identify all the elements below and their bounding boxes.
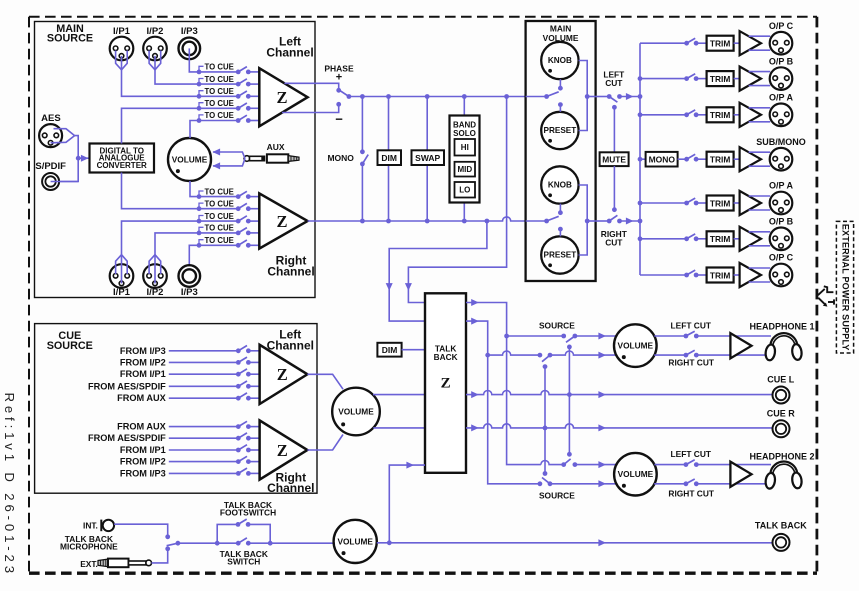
TALK BACK SWITCH xyxy=(217,538,334,567)
wire converter to row 4 xyxy=(122,108,200,143)
svg-text:TRIM: TRIM xyxy=(710,155,730,165)
MAIN VOLUME box xyxy=(526,21,596,281)
main volume PRESET 1 xyxy=(541,112,578,149)
output amp 5 xyxy=(734,191,761,215)
output mute switch 2 xyxy=(684,74,706,81)
main volume PRESET 2 xyxy=(541,236,578,273)
CUE L output jack xyxy=(767,374,795,403)
output mute switch 3 xyxy=(684,110,706,117)
svg-text:SOURCE: SOURCE xyxy=(539,491,575,501)
output amp 4 xyxy=(734,147,761,171)
cue source row FROM I/P1 L xyxy=(120,369,260,379)
wire cue right output row xyxy=(466,424,773,432)
svg-text:I/P3: I/P3 xyxy=(181,287,198,298)
svg-text:TALK BACK: TALK BACK xyxy=(755,521,807,531)
wire bus to output switch 5 xyxy=(640,202,687,204)
wire amp to XLR 7 xyxy=(749,268,771,282)
output mute switch 1 xyxy=(684,38,706,45)
svg-text:I/P1: I/P1 xyxy=(113,287,131,298)
svg-text:TO CUE: TO CUE xyxy=(205,63,234,72)
svg-text:FROM I/P2: FROM I/P2 xyxy=(120,357,166,367)
svg-text:SWITCH: SWITCH xyxy=(227,557,260,567)
wire cue volume to talkback right xyxy=(373,427,425,429)
svg-text:Z: Z xyxy=(276,212,287,231)
knob/preset selector switch 2 xyxy=(526,204,563,237)
CUE SOURCE box xyxy=(35,324,317,494)
HP2 right source select switch xyxy=(538,471,553,486)
svg-text:TRIM: TRIM xyxy=(710,110,730,120)
cue source row FROM AUX R xyxy=(117,421,259,431)
cue source row FROM AES/SPDIF R xyxy=(88,433,260,443)
wire bus to output switch 2 xyxy=(640,78,687,80)
svg-text:TRIM: TRIM xyxy=(710,234,730,244)
EXT jack plug icon xyxy=(80,559,151,570)
svg-text:Z: Z xyxy=(441,376,451,392)
wire amp to XLR 3 xyxy=(749,108,771,122)
svg-text:DIM: DIM xyxy=(381,153,397,163)
wire amp to XLR 1 xyxy=(749,36,771,50)
wire amp to XLR 2 xyxy=(749,72,771,86)
svg-text:I/P3: I/P3 xyxy=(181,26,198,37)
output amp 3 xyxy=(734,103,761,127)
XLR input I/P2 (top) xyxy=(143,26,167,70)
svg-text:O/P A: O/P A xyxy=(769,181,794,191)
svg-text:VOLUME: VOLUME xyxy=(172,155,208,165)
TRIM box 2 xyxy=(707,71,734,86)
TRIM box 3 xyxy=(707,107,734,122)
wire cue volume to talkback left xyxy=(373,394,425,396)
svg-text:TO CUE: TO CUE xyxy=(205,111,234,120)
XLR output SUB/MONO (row 4) xyxy=(756,137,806,171)
output mute switch 5 xyxy=(684,198,706,205)
cue source row FROM I/P2 R xyxy=(120,456,260,466)
jack input S/PDIF xyxy=(35,161,78,190)
MONO sum box xyxy=(640,152,687,167)
svg-text:MONO: MONO xyxy=(649,154,676,164)
HP1 left cut switch xyxy=(654,321,771,339)
TALK BACK MICROPHONE label xyxy=(60,534,118,552)
TO CUE tap and switch row 7 xyxy=(197,199,260,211)
svg-text:BACK: BACK xyxy=(434,352,458,362)
svg-text:TO CUE: TO CUE xyxy=(205,224,234,233)
svg-text:CUE R: CUE R xyxy=(767,409,796,419)
cue source row FROM I/P3 R xyxy=(120,468,260,478)
DIGITAL TO ANALOGUE CONVERTER box xyxy=(90,144,155,173)
svg-text:Channel: Channel xyxy=(267,481,314,495)
wire HP2 left to volume xyxy=(575,461,617,468)
cue VOLUME knob xyxy=(332,388,380,436)
SWAP box xyxy=(412,97,445,222)
svg-text:INT.: INT. xyxy=(83,520,98,530)
svg-text:S/PDIF: S/PDIF xyxy=(35,161,66,172)
HEADPHONE 2 icon xyxy=(749,451,814,489)
svg-text:MICROPHONE: MICROPHONE xyxy=(60,542,118,552)
svg-text:SOLO: SOLO xyxy=(453,129,476,138)
wire volume to row 5 xyxy=(190,121,199,139)
XLR output O/P A (row 5) xyxy=(769,181,794,215)
INT microphone icon xyxy=(83,520,114,532)
svg-text:O/P C: O/P C xyxy=(769,253,794,263)
svg-text:−: − xyxy=(335,111,343,126)
svg-text:AES: AES xyxy=(41,113,61,124)
TO CUE tap and switch row 4 xyxy=(197,99,260,111)
wire talkback out monitor right xyxy=(466,318,540,484)
svg-text:SOURCE: SOURCE xyxy=(47,340,93,352)
svg-text:SOURCE: SOURCE xyxy=(47,32,93,44)
TALK BACK output jack xyxy=(755,521,807,551)
svg-text:FROM AUX: FROM AUX xyxy=(117,422,167,432)
HP2 SOURCE label xyxy=(539,491,575,501)
wire talkback output row xyxy=(389,539,772,546)
left monitor bus wire xyxy=(349,94,526,99)
wire bus to output switch 6 xyxy=(640,238,687,240)
svg-text:FROM AES/SPDIF: FROM AES/SPDIF xyxy=(88,381,166,391)
MAIN SOURCE box xyxy=(35,22,316,298)
svg-text:MID: MID xyxy=(457,165,472,174)
output bus wire xyxy=(638,43,643,275)
wire converter to row 7 xyxy=(122,173,200,209)
cue DIM box xyxy=(377,343,425,357)
output mute switch 4 xyxy=(684,154,706,161)
Ref:1v1 D 26-01-23 revision text xyxy=(2,393,17,577)
output mute switch 6 xyxy=(684,234,706,241)
wire HP2 right to volume xyxy=(550,480,617,487)
wire talkback volume to talkback mixer xyxy=(377,462,425,546)
main source VOLUME knob (aux) xyxy=(168,138,211,181)
svg-text:Channel: Channel xyxy=(267,265,314,279)
XLR input I/P1 (top) xyxy=(110,26,134,70)
XLR input I/P2 (bottom) xyxy=(143,255,167,298)
wire HP1 left to volume xyxy=(575,333,617,340)
svg-text:I/P1: I/P1 xyxy=(113,26,131,37)
wire bus to output switch 1 xyxy=(640,42,687,44)
svg-text:FOOTSWITCH: FOOTSWITCH xyxy=(220,507,276,517)
svg-text:TRIM: TRIM xyxy=(710,198,730,208)
svg-text:VOLUME: VOLUME xyxy=(337,536,373,546)
svg-text:HI: HI xyxy=(461,143,469,152)
HP2 VOLUME knob xyxy=(614,453,657,496)
svg-text:FROM AUX: FROM AUX xyxy=(117,393,167,403)
svg-text:TO CUE: TO CUE xyxy=(205,187,234,196)
wire cue amps to cue volume xyxy=(307,374,343,450)
XLR output O/P C (row 1) xyxy=(769,21,794,55)
HP2 amp xyxy=(730,462,751,487)
cue source row FROM I/P1 R xyxy=(120,445,260,455)
main volume KNOB 2 xyxy=(541,166,578,203)
svg-text:TO CUE: TO CUE xyxy=(205,75,234,84)
wire selector to footswitch junction xyxy=(178,541,220,546)
svg-text:FROM AES/SPDIF: FROM AES/SPDIF xyxy=(88,433,166,443)
wire cue-R feed vertical xyxy=(544,367,546,474)
svg-text:TRIM: TRIM xyxy=(710,270,730,280)
wire I/P1 bottom to row 8 xyxy=(122,221,200,255)
TO CUE tap and switch row 5 xyxy=(197,111,260,123)
svg-text:Z: Z xyxy=(277,441,288,460)
svg-text:I/P2: I/P2 xyxy=(147,287,164,298)
right monitor bus wire xyxy=(308,217,526,224)
wire bus to output switch 7 xyxy=(640,274,687,276)
TRIM box 7 xyxy=(707,268,734,283)
main volume KNOB 1 xyxy=(541,42,578,79)
svg-text:FROM I/P1: FROM I/P1 xyxy=(120,445,166,455)
wire I/P3 bottom to row 10 xyxy=(189,245,199,276)
svg-text:Channel: Channel xyxy=(266,45,313,59)
svg-text:FROM I/P2: FROM I/P2 xyxy=(120,457,166,467)
svg-text:LEFT CUT: LEFT CUT xyxy=(671,449,712,459)
svg-text:FROM I/P1: FROM I/P1 xyxy=(120,369,166,379)
svg-text:PRESET: PRESET xyxy=(544,126,577,135)
TRIM box 5 xyxy=(707,196,734,211)
LEFT CUT switch xyxy=(596,70,640,153)
BAND SOLO box xyxy=(450,97,480,222)
output amp 1 xyxy=(734,31,761,55)
output mute switch 7 xyxy=(684,270,706,277)
svg-text:EXT.: EXT. xyxy=(80,559,98,569)
output amp 6 xyxy=(734,227,761,251)
wire cue-L feed vertical xyxy=(568,347,570,454)
svg-text:VOLUME: VOLUME xyxy=(338,407,374,417)
wire amp to XLR 4 xyxy=(749,152,771,166)
TO CUE tap and switch row 6 xyxy=(197,187,260,199)
external power supply connector symbol xyxy=(818,286,834,306)
svg-text:CUE L: CUE L xyxy=(767,374,795,384)
output amp 2 xyxy=(734,67,761,91)
svg-text:HEADPHONE 1: HEADPHONE 1 xyxy=(749,322,814,332)
wire INT mic to selector xyxy=(114,524,168,537)
knob/preset output join 1 xyxy=(579,61,596,131)
TRIM box 1 xyxy=(707,36,734,51)
svg-text:VOLUME: VOLUME xyxy=(618,341,654,351)
svg-text:SOURCE: SOURCE xyxy=(539,320,575,330)
svg-text:PRESET: PRESET xyxy=(544,251,577,260)
cue source row FROM AUX L xyxy=(117,393,259,403)
svg-text:TO CUE: TO CUE xyxy=(205,99,234,108)
left channel amp U1 xyxy=(259,34,313,126)
EXTERNAL POWER SUPPLY dashed box xyxy=(836,221,853,353)
HP2 left cut switch xyxy=(654,449,771,467)
XLR output O/P C (row 7) xyxy=(769,253,794,287)
RIGHT CUT switch xyxy=(596,166,640,247)
wire AES/SPDIF to converter xyxy=(51,136,90,182)
CUE R output jack xyxy=(767,409,796,438)
svg-text:LO: LO xyxy=(459,186,470,195)
TO CUE tap and switch row 2 xyxy=(197,75,260,87)
svg-text:TO CUE: TO CUE xyxy=(205,236,234,245)
jack input I/P3 (top) xyxy=(179,26,201,59)
svg-text:KNOB: KNOB xyxy=(548,56,572,65)
TO CUE tap and switch row 8 xyxy=(197,212,260,224)
svg-text:O/P A: O/P A xyxy=(769,93,794,103)
TO CUE tap and switch row 9 xyxy=(197,224,260,236)
HP1 right cut switch xyxy=(654,350,767,367)
svg-text:CUT: CUT xyxy=(605,78,623,88)
svg-text:VOLUME: VOLUME xyxy=(618,469,654,479)
svg-text:CUT: CUT xyxy=(605,237,623,247)
svg-text:LEFT CUT: LEFT CUT xyxy=(671,321,712,331)
wire monitor right to talkback xyxy=(386,221,487,321)
HP1 left source select switch xyxy=(507,334,578,350)
wire HP2 left row hop xyxy=(541,461,564,465)
cue right amp U4 xyxy=(260,420,315,495)
svg-text:FROM I/P3: FROM I/P3 xyxy=(120,346,166,356)
svg-text:KNOB: KNOB xyxy=(548,181,572,190)
cue source row FROM I/P2 L xyxy=(120,357,260,367)
XLR output O/P A (row 3) xyxy=(769,93,794,127)
svg-text:RIGHT CUT: RIGHT CUT xyxy=(668,357,714,367)
svg-text:DIM: DIM xyxy=(382,345,398,355)
wire amp to XLR 5 xyxy=(749,196,771,210)
HEADPHONE 1 icon xyxy=(749,322,814,361)
MUTE box xyxy=(600,152,629,166)
svg-text:CONVERTER: CONVERTER xyxy=(97,161,147,170)
cue source row FROM I/P3 L xyxy=(120,346,260,356)
wire I/P3 to row 1 xyxy=(189,48,199,72)
TO CUE tap and switch row 1 xyxy=(197,63,260,75)
HP1 right source select switch xyxy=(488,351,553,369)
wire volume to row 6 xyxy=(190,181,199,197)
TO CUE tap and switch row 3 xyxy=(197,87,260,99)
wire I/P1 to row 3 xyxy=(122,70,200,97)
TALK BACK FOOTSWITCH branch xyxy=(217,500,276,546)
output amp 7 xyxy=(734,263,761,287)
wire talkback out monitor left xyxy=(466,299,541,465)
svg-text:SUB/MONO: SUB/MONO xyxy=(756,137,806,147)
svg-text:MONO: MONO xyxy=(327,153,354,163)
svg-text:MUTE: MUTE xyxy=(602,154,626,164)
DIM box xyxy=(378,97,402,222)
wire AUX plug to volume xyxy=(213,149,246,170)
wire EXT plug to selector xyxy=(152,549,168,563)
talkback VOLUME knob xyxy=(334,520,377,563)
HP1 amp xyxy=(730,333,751,358)
svg-text:Z: Z xyxy=(276,88,287,107)
HP2 right cut switch xyxy=(654,479,767,498)
svg-text:TRIM: TRIM xyxy=(710,39,730,49)
svg-text:AUX: AUX xyxy=(267,142,285,152)
wire monitor left to talkback xyxy=(405,97,507,303)
svg-text:EXTERNAL POWER SUPPLY: EXTERNAL POWER SUPPLY xyxy=(841,224,851,351)
TRIM box 6 xyxy=(707,231,734,246)
knob/preset output join 2 xyxy=(579,185,596,255)
wire I/P2 bottom to row 9 xyxy=(155,233,199,255)
MONO switch xyxy=(327,97,368,222)
XLR input I/P1 (bottom) xyxy=(110,255,134,298)
svg-text:O/P C: O/P C xyxy=(769,21,794,31)
svg-text:+: + xyxy=(336,72,342,84)
wire bus to output switch 3 xyxy=(640,114,687,116)
svg-text:Ref:1v1 D 26-01-23: Ref:1v1 D 26-01-23 xyxy=(2,393,17,577)
svg-text:Z: Z xyxy=(277,365,288,384)
HP1 SOURCE label xyxy=(539,320,575,330)
phase invert switch xyxy=(282,64,354,127)
svg-text:Channel: Channel xyxy=(267,338,314,352)
right channel amp U2 xyxy=(259,193,314,278)
svg-text:TO CUE: TO CUE xyxy=(205,199,234,208)
wire HP1 right to volume xyxy=(550,351,617,359)
svg-text:TO CUE: TO CUE xyxy=(205,212,234,221)
TRIM box 4 xyxy=(707,152,734,167)
TALK BACK mixer box xyxy=(425,293,466,473)
TO CUE tap and switch row 10 xyxy=(197,236,260,248)
knob/preset selector switch 1 xyxy=(526,79,563,112)
XLR input AES xyxy=(39,113,75,147)
svg-text:O/P B: O/P B xyxy=(769,56,794,66)
jack input I/P3 (bottom) xyxy=(179,265,201,298)
AUX jack plug xyxy=(244,142,299,163)
svg-text:FROM I/P3: FROM I/P3 xyxy=(120,468,166,478)
svg-text:RIGHT CUT: RIGHT CUT xyxy=(668,488,714,498)
HP2 left source select switch xyxy=(561,452,577,467)
svg-text:SWAP: SWAP xyxy=(415,153,440,163)
svg-text:O/P B: O/P B xyxy=(769,217,794,227)
wire cue left output row xyxy=(466,391,773,399)
XLR output O/P B (row 2) xyxy=(769,56,794,90)
wire I/P2 to row 2 xyxy=(155,70,199,84)
mic selector switch xyxy=(165,534,180,551)
svg-text:I/P2: I/P2 xyxy=(147,26,164,37)
svg-text:TRIM: TRIM xyxy=(710,74,730,84)
cue left amp U3 xyxy=(260,328,314,405)
svg-text:HEADPHONE 2: HEADPHONE 2 xyxy=(749,451,814,461)
XLR output O/P B (row 6) xyxy=(769,217,794,251)
cue source row FROM AES/SPDIF L xyxy=(88,381,260,391)
HP1 VOLUME knob xyxy=(614,324,657,367)
wire amp to XLR 6 xyxy=(749,232,771,246)
svg-text:TO CUE: TO CUE xyxy=(205,87,234,96)
